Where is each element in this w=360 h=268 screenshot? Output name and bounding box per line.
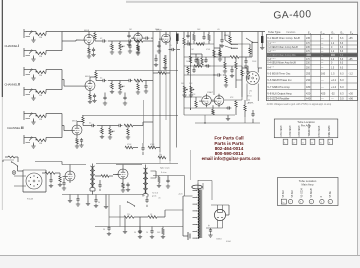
ground V2A cathode ground [75, 144, 79, 148]
wire page bottom edge line [0, 254, 360, 256]
node trem values [186, 61, 207, 65]
switch S3 power [11, 161, 23, 171]
capacitor C32 mid3 [214, 73, 226, 76]
resistor R34 after socket [42, 172, 60, 175]
capacitor C7 coupling ch2 [96, 79, 112, 82]
node red stamp line1 [214, 136, 243, 141]
wire ch1 signal [112, 40, 120, 42]
node filt labels [134, 232, 161, 234]
svg-text:GZ34: GZ34 [216, 239, 222, 241]
svg-text:245: 245 [306, 37, 311, 40]
svg-text:Function: Function [287, 31, 297, 34]
wire J2 tip lead [32, 50, 36, 52]
node misc labels mid [233, 48, 257, 75]
svg-text:Main Amp: Main Amp [302, 183, 314, 187]
wire filter rail y226 [95, 226, 183, 228]
svg-text:30: 30 [98, 202, 100, 204]
tube V1A triode ch1 [82, 33, 95, 47]
resistor R58 mid fill2 [219, 44, 221, 57]
node footswitch label2 [247, 96, 252, 98]
node voltage table entries [267, 37, 353, 100]
resistor R3a grid [36, 71, 46, 74]
ground V1B cathode ground [88, 100, 92, 104]
wire filter rail drop [119, 205, 121, 227]
wire P2 entry [14, 176, 26, 186]
svg-text:420: 420 [306, 92, 311, 96]
svg-text:3: 3 [300, 202, 301, 204]
wire J3 output [46, 69, 62, 71]
wire left entry [3, 160, 14, 162]
capacitor C44 ch2 low [103, 93, 107, 106]
ground J2 sleeve ground [31, 56, 35, 62]
wire V2A plate up [77, 122, 83, 124]
svg-text:---: --- [321, 47, 324, 49]
svg-text:.05: .05 [217, 29, 220, 31]
resistor R37 k2 [121, 181, 125, 192]
node voltage table shaded row [267, 53, 357, 57]
resistor R15 ch2 mixer [134, 79, 153, 82]
svg-text:CHANNEL: CHANNEL [5, 82, 19, 86]
svg-text:-1.2: -1.2 [349, 73, 354, 76]
wire subrail y44 [184, 43, 214, 45]
capacitor C36 chain [230, 66, 234, 78]
svg-text:1M: 1M [39, 95, 42, 97]
capacitor C38 pa extra [76, 195, 80, 207]
capacitor C9 ch2 bass [144, 81, 148, 94]
svg-text:+1.4: +1.4 [331, 85, 337, 89]
capacitor C27 bias [103, 226, 111, 231]
svg-text:1M: 1M [122, 46, 125, 48]
node main amp tube location box [278, 178, 339, 206]
capacitor C21 row146 [141, 143, 144, 155]
node bias values [127, 214, 153, 216]
resistor R24 trem2 [196, 54, 203, 65]
wire T3 top leads [198, 180, 203, 190]
svg-text:V-3 6EU8 Chan 3 Amp Mix: V-3 6EU8 Chan 3 Amp Mix [267, 54, 296, 57]
capacitor C5 ch1 treble [128, 41, 132, 53]
resistor R16 ch2 shunt [136, 81, 140, 95]
svg-text:V-8 6L6 Output Amp.: V-8 6L6 Output Amp. [267, 92, 292, 96]
svg-text:6CA4: 6CA4 [226, 240, 231, 243]
wire splitter row3 [184, 114, 235, 116]
resistor R33 row147b [148, 146, 160, 149]
svg-text:30: 30 [134, 232, 136, 234]
capacitor C35 hang1 [186, 32, 189, 45]
resistor R5a grid [36, 115, 46, 118]
resistor R48 sub [196, 43, 204, 46]
capacitor C29 mid2 [192, 66, 195, 75]
wire pa bottom rail [62, 194, 143, 196]
capacitor C39 first filter [208, 224, 213, 237]
resistor R52 row157 [158, 155, 166, 159]
node preamp plug location box [274, 119, 338, 138]
tube V1C triode ch1b [131, 31, 142, 43]
svg-text:470: 470 [159, 155, 162, 157]
resistor R35 grid6L6 [58, 173, 62, 187]
resistor R49 hang2 [208, 32, 210, 45]
capacitor C3 coupling ch1 [95, 39, 112, 42]
resistor R41 mid [197, 57, 199, 66]
wire P2 frame [23, 170, 46, 192]
node P2 label [27, 199, 34, 201]
ground C13 ground [157, 49, 161, 53]
node J3 value [39, 75, 42, 77]
svg-text:20: 20 [143, 195, 145, 197]
node T3 caption [216, 239, 231, 244]
resistor R7 plate load ch1 [94, 32, 96, 42]
capacitor C6 bypass ch2 [92, 94, 96, 103]
svg-text:Spkr Jack: Spkr Jack [160, 167, 171, 170]
node trem dots [190, 56, 215, 75]
node mixer values [156, 30, 173, 48]
connector J4 input jack [24, 87, 32, 96]
node trem tube label [224, 34, 230, 37]
node V1B label [85, 76, 91, 78]
svg-text:CHANNEL: CHANNEL [7, 126, 21, 130]
svg-text:grids: grids [152, 196, 156, 198]
svg-text:---: --- [321, 43, 324, 45]
svg-text:1M: 1M [129, 29, 132, 31]
potentiometer VR1 volume ch1 [118, 41, 124, 54]
node CHANNEL II label [5, 82, 21, 86]
ground C27 gnd [107, 232, 111, 236]
svg-text:V-6 6EU8 Phase Inv.: V-6 6EU8 Phase Inv. [267, 78, 292, 82]
capacitor C22 line cap [49, 173, 53, 188]
wire top B+ rail [62, 31, 265, 33]
resistor R40 choke [140, 216, 165, 219]
scan margin right [358, 0, 360, 256]
wire socket caption line [248, 99, 250, 101]
wire T1 leads [90, 164, 95, 195]
resistor R1a grid [36, 33, 46, 36]
node rail label4 [155, 29, 160, 31]
resistor R18 cathode ch3 [76, 137, 78, 144]
node voltage table frame [267, 30, 358, 100]
wire R4a link [36, 90, 46, 93]
svg-text:V8 6L6: V8 6L6 [283, 189, 285, 197]
wire J1 output [46, 31, 62, 33]
capacitor C43 ss [154, 55, 158, 67]
wire J6 output [46, 137, 62, 139]
wire J5 output [46, 113, 62, 115]
ground J3 sleeve ground [31, 75, 35, 81]
node speaker jack labels [160, 167, 171, 175]
resistor R32 row147 [125, 146, 138, 149]
svg-text:-52: -52 [331, 92, 335, 96]
capacitor C47 filt2 [150, 227, 154, 239]
wire mixer bus A [152, 32, 154, 148]
resistor R27 b+ drop [222, 56, 252, 59]
ground bias gnd3 [138, 224, 142, 234]
tube V7 driver triode2 [116, 167, 129, 181]
svg-text:V-2 6EU8 Chan 2 Amp 6eU8: V-2 6EU8 Chan 2 Amp 6eU8 [267, 46, 298, 49]
wire ch1 jack join [62, 32, 82, 51]
svg-text:1M: 1M [122, 86, 125, 88]
capacitor C11 coupling ch3 [83, 124, 102, 127]
svg-text:220K: 220K [99, 131, 104, 133]
capacitor C14 coupling [169, 48, 181, 51]
resistor R8 cathode ch1 [88, 47, 90, 56]
capacitor C25 k2 byp [126, 183, 130, 192]
resistor R28 trem osc [223, 57, 227, 73]
wire row4 stubs [205, 100, 245, 123]
node voltage table footnote [267, 103, 332, 106]
svg-text:5.0: 5.0 [340, 97, 344, 101]
capacitor C28 mid [204, 57, 207, 66]
resistor R4a grid [36, 91, 46, 94]
svg-text:PH.I 6EU8: PH.I 6EU8 [319, 125, 321, 137]
capacitor C10 bypass ch3 [79, 138, 83, 147]
connector P2 AC power socket [26, 173, 42, 189]
capacitor C33 osc [246, 66, 250, 79]
connector J1 input jack [24, 29, 32, 38]
capacitor C18 driver [214, 48, 222, 61]
wire splitter row4 [195, 122, 260, 124]
wire mixer bus B [159, 32, 161, 153]
svg-text:1M: 1M [233, 48, 236, 50]
resistor R21 ch3 shunt [126, 126, 130, 140]
svg-text:V5 6E: V5 6E [330, 191, 332, 198]
wire lower rail [35, 162, 178, 164]
wire ch2 jack join [62, 70, 83, 90]
connector J2 input jack [24, 48, 32, 57]
resistor R29 splitter [195, 97, 197, 108]
node row4 dot [204, 122, 205, 123]
wire V1A plate to rail [88, 32, 90, 33]
resistor R42 mid2 [187, 66, 189, 75]
wire bus E [183, 48, 185, 115]
resistor R11 ch1 shunt [136, 41, 140, 55]
svg-text:V-5 6EU8 Trem Osc: V-5 6EU8 Trem Osc [267, 72, 291, 76]
svg-text:---: --- [331, 98, 334, 101]
wire mid rail ch3 [82, 115, 178, 117]
wire page left edge line [1, 0, 3, 210]
wire bus E2 [165, 55, 167, 120]
ground VR4 gnd [182, 93, 193, 97]
node V1A label [84, 30, 90, 32]
wire J2 output [46, 50, 62, 52]
switch S1 speed [225, 32, 238, 49]
svg-text:220: 220 [127, 214, 130, 216]
wire trem drop line [190, 150, 192, 180]
node J6 value [39, 143, 42, 145]
node red stamp line3 [215, 146, 244, 151]
capacitor C37 row4 [251, 110, 254, 123]
capacitor C19 node57 [244, 57, 248, 68]
svg-text:1a: 1a [282, 202, 284, 204]
resistor R12 plate load ch2 [95, 71, 97, 81]
scan margin bottom [0, 256, 360, 268]
svg-text:+: + [208, 224, 210, 228]
capacitor C20 splitter [226, 106, 231, 109]
wire V7 links [113, 165, 132, 175]
wire page right edge border [357, 2, 359, 255]
potentiometer VR4 trem depth [181, 83, 188, 93]
wire T2 secondary [151, 171, 157, 178]
resistor R10 ch1 mixer [134, 40, 153, 43]
svg-text:2: 2 [290, 202, 291, 204]
capacitor C42 snub [166, 176, 170, 189]
node J5 value [39, 119, 42, 121]
svg-text:---: --- [321, 51, 324, 53]
connector J6 input jack [24, 135, 32, 144]
svg-text:email info@guitar-parts.com: email info@guitar-parts.com [202, 156, 261, 161]
wire mixer bus D [176, 32, 178, 148]
switch S2 intensity [246, 38, 258, 43]
wire speaker line [153, 176, 185, 197]
capacitor C4 ch1 tone [120, 39, 132, 42]
svg-text:---: --- [321, 59, 324, 61]
capacitor C30 upper [220, 32, 224, 48]
svg-text:4.7: 4.7 [244, 73, 247, 75]
resistor R38 sec load [157, 176, 161, 188]
wire V3A plate [165, 31, 167, 34]
wire mid rail ch2 [95, 70, 178, 72]
svg-text:---: --- [321, 68, 324, 70]
svg-text:+96: +96 [349, 97, 354, 101]
resistor R19 ch3 load [100, 126, 104, 139]
svg-text:PRE 6AB4: PRE 6AB4 [328, 125, 331, 137]
svg-text:1M: 1M [39, 75, 42, 77]
resistor R20 ch3 mixer [124, 122, 153, 127]
svg-text:470K: 470K [150, 144, 155, 146]
ground C26 gnd [94, 204, 98, 208]
connector J5 input jack [24, 111, 32, 120]
svg-text:V-2 ″ ″ ″: V-2 ″ ″ ″ [267, 50, 275, 53]
wire bus faint left [143, 100, 145, 143]
capacitor C49 mid fill [202, 32, 205, 45]
resistor R39 bias bleed [124, 216, 140, 224]
wire J5 tip lead [32, 113, 36, 115]
tube V1B triode ch2 [83, 79, 96, 93]
connector P1 footswitch socket [246, 72, 259, 85]
node mid fill labels [191, 49, 211, 51]
wire J6 tip lead [32, 137, 36, 139]
resistor R31 tail [212, 105, 214, 115]
wire bus I [257, 32, 259, 69]
svg-text:12AU7: 12AU7 [207, 91, 214, 94]
tube V5 phase splitter B [212, 94, 224, 108]
connector J3 input jack [24, 67, 32, 76]
wire splitter rails [184, 97, 242, 100]
resistor R23 trem [189, 56, 191, 63]
svg-text:255: 255 [306, 73, 311, 76]
svg-text:V9 GZ34: V9 GZ34 [302, 188, 304, 198]
svg-text:1: 1 [249, 93, 250, 95]
capacitor C45 ch2 low2 [123, 93, 127, 106]
node red stamp line2 [214, 141, 244, 146]
svg-text:V-4 ″ ″: V-4 ″ ″ [267, 67, 274, 70]
capacitor C34 sub [186, 42, 191, 45]
connector preamp plug sockets row [283, 139, 332, 144]
resistor R25 trem3 [194, 65, 202, 68]
capacitor C23 drv [62, 178, 66, 190]
svg-text:250K: 250K [252, 61, 257, 63]
wire J4 tip lead [32, 89, 36, 91]
wire R6a link [36, 138, 46, 141]
resistor R43 upper [229, 32, 231, 45]
svg-text:440: 440 [306, 97, 311, 101]
svg-text:6EU8: 6EU8 [72, 121, 78, 123]
resistor R56 filt [161, 227, 165, 239]
svg-text:III: III [21, 126, 24, 130]
svg-text:CH3 6EU8: CH3 6EU8 [299, 125, 301, 137]
svg-text:220K: 220K [109, 46, 114, 48]
wire P1 right lead [257, 84, 259, 102]
svg-text:4: 4 [310, 202, 311, 204]
svg-text:6: 6 [329, 202, 330, 204]
svg-text:---: --- [321, 37, 324, 40]
svg-text:220K: 220K [155, 29, 160, 31]
wire trem row [184, 65, 214, 67]
wire ch3 jack join [62, 114, 70, 138]
resistor R14 ch2 load [110, 81, 114, 94]
wire rail y75 [184, 74, 214, 76]
svg-text:CH2 6EU8: CH2 6EU8 [290, 125, 292, 137]
wire pa rail mid [62, 162, 142, 165]
node rail label3 [217, 29, 220, 31]
svg-text:V-9 GZ34 Rectifier: V-9 GZ34 Rectifier [267, 97, 289, 101]
resistor R54 ss [163, 55, 167, 70]
wire J3 tip lead [32, 69, 36, 71]
wire pa drop extra [68, 195, 72, 203]
switch S4 standby [127, 201, 135, 206]
resistor R17 plate load ch3 [82, 116, 84, 126]
capacitor C31 dark can [260, 32, 264, 50]
ground J1 sleeve ground [31, 37, 35, 43]
capacitor C40 ch1b [127, 32, 131, 47]
node pilot lamp [12, 171, 16, 175]
wire mixer bus C [169, 32, 171, 162]
transformer T3 power winding [193, 190, 202, 239]
wire R2a link [36, 51, 46, 54]
ground pa gnd1 [86, 195, 90, 206]
wire bias to pt [165, 210, 183, 217]
node J2 value [39, 56, 42, 58]
node CHANNEL I label [5, 44, 20, 48]
capacitor C2 cathode bypass ch1 [91, 48, 95, 57]
wire row57 [214, 42, 252, 57]
svg-text:230: 230 [306, 78, 311, 82]
node CHANNEL III label [7, 126, 24, 130]
wire J1 tip lead [32, 31, 36, 33]
ground bias gnd2 [123, 224, 127, 234]
wire drop to bias [108, 195, 110, 227]
ground pa gnd2 [104, 195, 108, 209]
wire bus Hdrop [241, 80, 243, 100]
resistor R50 chain [235, 57, 237, 80]
svg-text:5: 5 [321, 202, 322, 204]
svg-text:Tube Type: Tube Type [268, 30, 281, 34]
wire mid conn1 [230, 43, 250, 45]
node ch1 values [100, 38, 135, 48]
svg-text:+65: +65 [349, 37, 354, 40]
svg-text:1.5: 1.5 [331, 73, 335, 76]
capacitor C15 filter cap dark [176, 34, 179, 45]
capacitor C26 filter1 [94, 195, 100, 205]
wire bus B drop [159, 152, 161, 164]
wire R3a link [36, 70, 46, 73]
resistor R55 ss2 [153, 72, 170, 75]
svg-text:All DC Voltages read to gnd. w: All DC Voltages read to gnd. with VTVM, … [267, 103, 332, 106]
svg-text:+30: +30 [349, 92, 354, 96]
potentiometer VR5 trem speed [189, 83, 194, 93]
wire page top edge border [126, 1, 358, 3]
resistor R13 cathode ch2 [89, 93, 91, 100]
svg-text:160: 160 [321, 73, 326, 76]
svg-text:I: I [18, 44, 19, 48]
node red stamp line5 [202, 156, 261, 161]
